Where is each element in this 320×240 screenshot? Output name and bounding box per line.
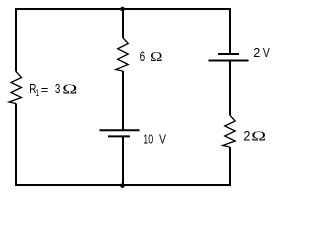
- svg-text:2: 2: [243, 128, 250, 144]
- wire left lower: [15, 104, 17, 187]
- svg-text:10: 10: [143, 133, 153, 147]
- wire right lower: [229, 147, 231, 186]
- svg-text:1: 1: [36, 88, 39, 98]
- label R1 = 3 ohm: [29, 81, 77, 99]
- label 6 ohm: [140, 48, 163, 64]
- wire middle upper: [122, 9, 124, 38]
- wire right mid: [229, 61, 231, 116]
- svg-text:Ω: Ω: [62, 81, 77, 97]
- svg-text:V: V: [159, 133, 166, 147]
- svg-text:Ω: Ω: [251, 128, 266, 143]
- battery 10V short plate: [108, 135, 130, 137]
- svg-text:2: 2: [253, 45, 260, 60]
- resistor R1 = 3 ohm: [9, 72, 22, 104]
- label 2 ohm: [243, 128, 266, 144]
- svg-text:=: =: [41, 82, 49, 97]
- wire left upper: [15, 8, 17, 72]
- svg-text:Ω: Ω: [150, 49, 162, 65]
- junction dot top: [120, 7, 125, 12]
- battery 2V long plate: [209, 60, 249, 62]
- junction dot bottom: [120, 183, 125, 188]
- wire top: [15, 8, 231, 10]
- battery 10V long plate: [100, 129, 140, 131]
- wire bottom: [15, 184, 231, 186]
- label 10 V: [143, 133, 166, 148]
- svg-text:V: V: [263, 46, 270, 60]
- wire right upper: [229, 8, 231, 54]
- label 2 V: [253, 45, 270, 60]
- resistor 2 ohm: [223, 115, 236, 147]
- resistor 6 ohm: [116, 38, 129, 72]
- svg-text:3: 3: [55, 83, 60, 97]
- wire middle lower: [122, 136, 124, 185]
- battery 2V short plate: [218, 53, 239, 55]
- wire middle mid: [122, 71, 124, 130]
- svg-text:6: 6: [140, 48, 146, 64]
